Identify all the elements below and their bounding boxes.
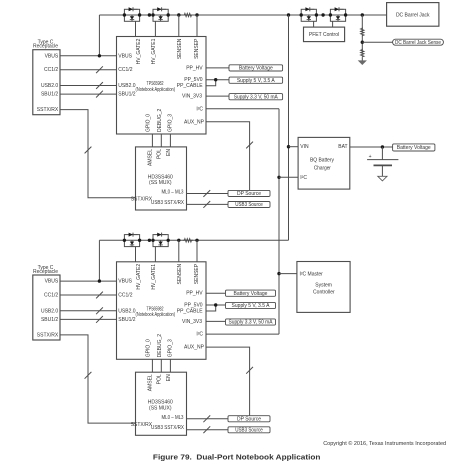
port 1 wire PP_5V0 (206, 79, 229, 81)
wire PFET gate drops (313, 21, 315, 27)
svg-text:Battery Voltage: Battery Voltage (397, 145, 431, 151)
port 2 wire DEBUG_2 to POL (160, 359, 162, 372)
port 1 wire SBU1/2 (60, 93, 117, 95)
port 1 op-amp U2 HD3SS460 box (136, 147, 187, 210)
port 2 resistor Rsns2 current sense (183, 239, 193, 242)
svg-text:VIN_3V3: VIN_3V3 (182, 319, 202, 325)
svg-text:VIN_3V3: VIN_3V3 (182, 94, 202, 100)
svg-text:VBUS: VBUS (45, 279, 59, 285)
port 2 op-amp U4 TPS65982 box (117, 262, 207, 360)
op-amp U3 BQ Battery Charger box (298, 137, 350, 189)
svg-text:SSTX/RX: SSTX/RX (37, 107, 59, 113)
port 2 node Supply 5V label (226, 302, 276, 308)
port 1 resistor Rsns1 current sense (183, 13, 193, 16)
svg-text:SENSEN: SENSEN (177, 38, 183, 59)
svg-text:PP_CABLE: PP_CABLE (177, 83, 204, 89)
resistor R2 divider bottom (361, 49, 364, 58)
svg-text:Receptacle: Receptacle (33, 44, 58, 50)
port 1 wire AUX_NP (206, 122, 250, 191)
wire battery to gnd (381, 165, 383, 176)
svg-text:DC Barrel Jack Sense: DC Barrel Jack Sense (395, 40, 441, 46)
port 1 wire VIN_3V3 (206, 95, 229, 97)
port 1 wire HV rail (99, 14, 386, 16)
node Battery Voltage label (charger) (393, 144, 435, 151)
port 2 wire GPIO_0 to AMSEL (151, 359, 153, 372)
junction I2C charger (277, 176, 280, 179)
svg-text:ML0 – ML3: ML0 – ML3 (162, 190, 184, 196)
port 2 transistor Q5 VBUS FET (124, 235, 139, 247)
svg-text:DP Source: DP Source (237, 191, 261, 197)
svg-text:Battery Voltage: Battery Voltage (239, 66, 273, 72)
port 1 junction PP_5V0/PP_CABLE (214, 78, 217, 81)
svg-text:SSTX/RX: SSTX/RX (131, 422, 153, 428)
port 1 wire SENSEP drop (196, 15, 198, 37)
svg-text:SBU1/2: SBU1/2 (118, 317, 135, 323)
svg-text:Figure 79. Dual-Port Notebook: Figure 79. Dual-Port Notebook Applicatio… (153, 453, 321, 462)
port 1 bus slash CC1/2 (96, 66, 103, 73)
port 1 wire PP_HV (206, 67, 229, 69)
svg-text:USB3 SSTX/RX: USB3 SSTX/RX (151, 425, 185, 431)
port 1 wire GPIO_0 to AMSEL (151, 134, 153, 147)
port 2 bus slash CC1/2 (96, 292, 103, 299)
port 2 bus slash USB3 (203, 426, 210, 433)
port 1 wire VBUS feed drop (98, 15, 100, 56)
svg-text:Supply 3.3 V, 50 mA: Supply 3.3 V, 50 mA (229, 320, 274, 326)
port 1 wire VBUS (60, 55, 117, 57)
port 2 junction VBUS (98, 279, 101, 282)
port 2 wire GPIO_3 to EN (169, 359, 171, 372)
svg-text:PP_HV: PP_HV (186, 291, 203, 297)
svg-text:CC1/2: CC1/2 (118, 293, 132, 299)
port 1 wire SSTX/RX to mux (60, 110, 136, 198)
svg-text:GPIO_0: GPIO_0 (146, 339, 152, 357)
transistor Q3 PFET (301, 9, 316, 21)
svg-text:USB3 SSTX/RX: USB3 SSTX/RX (151, 200, 185, 206)
port 1 bus slash AUX_NP (246, 142, 253, 149)
svg-text:HV_GATE1: HV_GATE1 (151, 264, 157, 290)
port 2 wire SENSEN drop (178, 240, 180, 261)
port 1 wire USB2.0 (60, 85, 117, 87)
port 2 node DP Source label (228, 416, 270, 422)
wire to sense label (362, 41, 392, 43)
wire I2C to charger (279, 176, 298, 178)
svg-text:BQ Battery: BQ Battery (310, 157, 334, 163)
svg-text:USB2.0: USB2.0 (118, 83, 135, 89)
svg-text:(SS MUX): (SS MUX) (149, 406, 172, 412)
svg-text:GPIO_3: GPIO_3 (167, 339, 173, 357)
DC Barrel Jack box (387, 3, 439, 27)
port 1 bus slash ML0-ML3 (203, 190, 210, 197)
svg-text:DEBUG_2: DEBUG_2 (157, 334, 163, 358)
port 2 node Supply 3.3V label (226, 319, 276, 325)
port 1 node Supply 3.3V label (229, 94, 283, 100)
svg-text:ML0 – ML3: ML0 – ML3 (162, 415, 184, 421)
wire VIN (289, 146, 299, 148)
svg-text:Supply 5 V, 3.5 A: Supply 5 V, 3.5 A (232, 303, 271, 309)
port 2 transistor Q6 VBUS FET (153, 235, 168, 247)
port 2 node Battery Voltage label (226, 290, 276, 296)
port 2 wire HV_GATE1 drop (154, 247, 156, 262)
svg-text:POL: POL (157, 374, 163, 384)
port 2 op-amp U5 HD3SS460 box (136, 372, 187, 435)
port 2 wire PP_CABLE (206, 305, 216, 311)
port 1 bus slash USB3 (203, 201, 210, 208)
svg-text:EN: EN (166, 149, 172, 156)
junction divider sense (361, 41, 364, 44)
svg-text:Supply 5 V, 3.5 A: Supply 5 V, 3.5 A (237, 78, 276, 84)
port 2 Type C receptacle box (33, 275, 60, 340)
port 1 wire ML0-ML3 (187, 193, 229, 195)
port 2 wire I2C stub (206, 333, 279, 335)
svg-text:USB2.0: USB2.0 (41, 308, 58, 314)
port 1 wire DEBUG_2 to POL (160, 134, 162, 147)
wire I2C to system controller (279, 273, 297, 275)
junction HV rail tap (287, 13, 290, 16)
svg-text:Battery Voltage: Battery Voltage (234, 291, 268, 297)
svg-text:BAT: BAT (338, 144, 347, 150)
port 1 wire GPIO_3 to EN (169, 134, 171, 147)
wire BAT (350, 146, 393, 148)
port 1 wire PP_CABLE (206, 80, 216, 86)
svg-text:(Notebook Application): (Notebook Application) (136, 87, 176, 93)
svg-text:EN: EN (166, 374, 172, 381)
svg-text:Receptacle: Receptacle (33, 269, 58, 275)
svg-text:I²C: I²C (196, 332, 203, 338)
svg-text:VBUS: VBUS (118, 53, 132, 59)
port 1 junction VBUS (98, 54, 101, 57)
wire HV rail vertical (288, 15, 290, 240)
port 2 bus slash SSTX/RX (85, 372, 92, 379)
svg-text:AUX_NP: AUX_NP (184, 345, 205, 351)
junction I2C system controller (277, 272, 280, 275)
svg-text:PP_HV: PP_HV (186, 65, 203, 71)
ground divider (358, 60, 367, 65)
port 1 wire CC1/2 (60, 69, 117, 71)
port 1 bus slash SSTX/RX (85, 147, 92, 154)
svg-text:HV_GATE2: HV_GATE2 (136, 38, 142, 64)
svg-text:GPIO_0: GPIO_0 (146, 114, 152, 132)
port 2 node SENSEN junction (177, 239, 180, 242)
wire battery drop (381, 147, 383, 160)
svg-text:AMSEL: AMSEL (147, 149, 153, 166)
port 1 wire USB3 SSTX/RX (187, 203, 229, 205)
port 1 Type C receptacle box (33, 50, 60, 115)
svg-text:VBUS: VBUS (118, 279, 132, 285)
svg-text:SBU1/2: SBU1/2 (41, 317, 58, 323)
port 2 wire USB3 SSTX/RX (187, 429, 229, 431)
port 2 wire VBUS feed drop (98, 240, 100, 281)
wire divider gnd (361, 58, 363, 61)
svg-text:HV_GATE2: HV_GATE2 (136, 264, 142, 290)
svg-text:GPIO_3: GPIO_3 (167, 114, 173, 132)
svg-text:DEBUG_2: DEBUG_2 (157, 108, 163, 132)
port 2 wire PP_HV (206, 292, 226, 294)
port 1 transistor Q1 VBUS FET (124, 9, 139, 21)
port 1 wire I2C stub (206, 108, 279, 110)
svg-text:VBUS: VBUS (45, 53, 59, 59)
svg-text:(SS MUX): (SS MUX) (149, 180, 172, 186)
port 2 bus slash AUX_NP (246, 367, 253, 374)
svg-text:I²C: I²C (196, 106, 203, 112)
svg-text:PFET Control: PFET Control (309, 32, 339, 38)
port 2 junction PP_5V0/PP_CABLE (214, 303, 217, 306)
svg-text:SSTX/RX: SSTX/RX (131, 197, 153, 203)
port 1 node Battery Voltage label (229, 65, 283, 71)
svg-text:CC1/2: CC1/2 (44, 67, 58, 73)
port 1 bus slash USB2.0 (96, 82, 103, 89)
svg-text:VIN: VIN (300, 144, 309, 150)
port 2 wire SSTX/RX to mux (60, 335, 136, 423)
port 1 node SENSEP junction (195, 13, 198, 16)
port 1 node Supply 5V label (229, 77, 283, 83)
svg-text:AMSEL: AMSEL (147, 374, 153, 391)
port 1 transistor Q2 VBUS FET (153, 9, 168, 21)
svg-text:SENSEP: SENSEP (194, 263, 200, 284)
svg-text:USB3 Source: USB3 Source (235, 202, 263, 208)
port 2 node SENSEP junction (195, 239, 198, 242)
port 2 wire VIN_3V3 (206, 320, 226, 322)
port 2 junction between FETs (148, 239, 151, 242)
svg-text:USB2.0: USB2.0 (118, 308, 135, 314)
wire divider top (361, 15, 363, 32)
port 2 bus slash USB2.0 (96, 307, 103, 314)
svg-text:CC1/2: CC1/2 (44, 293, 58, 299)
port 2 node USB3 Source label (228, 427, 270, 433)
port 2 wire SBU1/2 (60, 318, 117, 320)
svg-text:USB2.0: USB2.0 (41, 83, 58, 89)
port 1 wire HV_GATE2 drop (135, 21, 137, 36)
svg-text:I²C Master: I²C Master (300, 271, 324, 277)
battery BT1 plates (367, 159, 398, 161)
node DC Barrel Jack Sense label (393, 39, 444, 45)
svg-text:DP Source: DP Source (237, 416, 261, 422)
svg-text:DC Barrel Jack: DC Barrel Jack (396, 12, 430, 18)
port 2 wire ML0-ML3 (187, 418, 229, 420)
junction VIN tap (287, 145, 290, 148)
port 1 wire SENSEN drop (178, 15, 180, 37)
junction between PFETs (321, 13, 324, 16)
svg-text:I²C: I²C (300, 175, 307, 181)
svg-text:SSTX/RX: SSTX/RX (37, 332, 59, 338)
svg-text:SBU1/2: SBU1/2 (118, 92, 135, 98)
svg-text:Charger: Charger (314, 165, 331, 171)
port 2 wire SENSEP drop (196, 240, 198, 261)
svg-text:POL: POL (157, 149, 163, 159)
port 2 wire HV_GATE2 drop (135, 247, 137, 262)
port 1 junction between FETs (148, 13, 151, 16)
svg-text:SBU1/2: SBU1/2 (41, 92, 58, 98)
svg-text:USB3 Source: USB3 Source (235, 428, 263, 434)
svg-text:Controller: Controller (313, 289, 335, 295)
port 1 bus slash SBU1/2 (96, 91, 103, 98)
PFET Control box (304, 27, 345, 41)
port 1 op-amp U1 TPS65982 box (117, 37, 207, 135)
wire divider mid (361, 37, 363, 53)
port 2 wire AUX_NP (206, 347, 250, 416)
svg-text:HV_GATE1: HV_GATE1 (151, 38, 157, 64)
svg-text:PP_CABLE: PP_CABLE (177, 309, 204, 315)
resistor R1 divider top (361, 27, 364, 36)
port 1 node DP Source label (228, 190, 270, 196)
transistor Q4 PFET (330, 9, 345, 21)
wire I2C bus (278, 109, 280, 334)
port 2 wire CC1/2 (60, 294, 117, 296)
svg-text:SENSEP: SENSEP (194, 38, 200, 59)
svg-text:AUX_NP: AUX_NP (184, 119, 205, 125)
op-amp U6 System Controller box (297, 262, 350, 313)
port 1 wire HV_GATE1 drop (154, 21, 156, 36)
port 2 wire USB2.0 (60, 310, 117, 312)
port 1 node USB3 Source label (228, 202, 270, 208)
port 2 wire PP_5V0 (206, 304, 226, 306)
port 2 bus slash SBU1/2 (96, 316, 103, 323)
svg-text:CC1/2: CC1/2 (118, 67, 132, 73)
port 1 node SENSEN junction (177, 13, 180, 16)
port 2 wire HV rail (99, 239, 288, 241)
svg-text:Copyright © 2016, Texas Instru: Copyright © 2016, Texas Instruments Inco… (323, 440, 446, 447)
svg-text:SENSEN: SENSEN (177, 264, 183, 285)
junction barrel jack node (361, 13, 364, 16)
junction battery (381, 145, 384, 148)
svg-text:Supply 3.3 V, 50 mA: Supply 3.3 V, 50 mA (234, 94, 279, 100)
svg-text:System: System (315, 283, 332, 289)
ground battery (378, 176, 387, 181)
port 2 wire VBUS (60, 280, 117, 282)
svg-text:(Notebook Application): (Notebook Application) (136, 312, 176, 318)
port 2 bus slash ML0-ML3 (203, 415, 210, 422)
